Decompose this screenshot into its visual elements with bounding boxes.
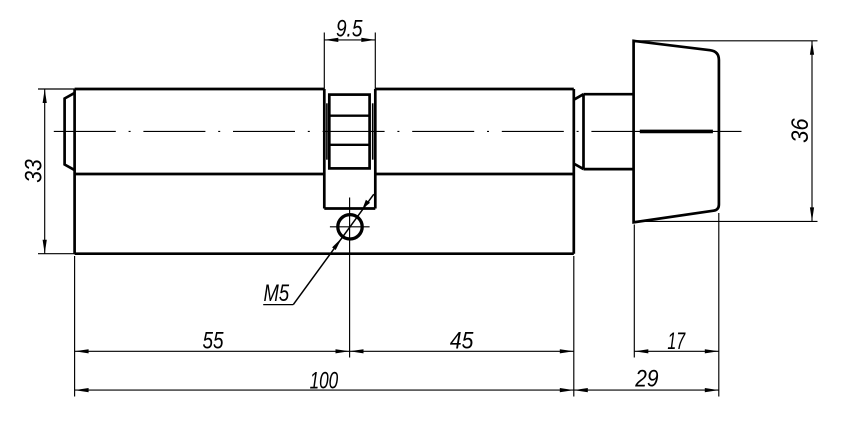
dim 55 line [75,350,350,352]
cylinder body top edge [75,88,574,91]
dim 29 line [574,389,719,391]
cam cutout right wall [374,89,377,209]
cam cutout left wall [323,89,326,209]
dim 36 extension lines [634,41,818,222]
svg-text:55: 55 [203,327,225,354]
dim 45 arrow right [560,349,574,353]
cylinder barrel bottom edge [75,173,574,176]
svg-text:33: 33 [20,159,47,183]
M5 leader arrowhead at hole [332,238,342,250]
svg-text:100: 100 [310,367,339,394]
dim 36 line [811,41,813,222]
dim 33 arrow bottom [43,240,47,254]
dim 9.5 extension lines [324,33,375,90]
lower extension lines [75,213,719,397]
dim 17 line [634,350,719,352]
dim 100 line [75,389,574,391]
thumbturn neck bottom edge [584,168,634,171]
M5 hole horizontal centerline [330,226,370,228]
dim 100 arrow right [560,388,574,392]
cam cutout bottom edge [324,207,375,210]
cam stack divider lower [329,144,369,146]
dim 9.5 arrow left [324,38,338,42]
dim 29 arrow right [705,388,719,392]
M5 label underline [263,304,293,306]
svg-text:45: 45 [450,328,474,355]
cam stack body [329,95,369,169]
svg-text:36: 36 [787,118,814,143]
M5 leader arrowhead at cutout bottom [362,200,370,209]
M5 hole vertical centerline [349,198,351,358]
dim 29 arrow left [574,388,588,392]
thumbturn knob outline [634,41,719,222]
dim 33 arrow top [43,89,47,103]
dim 36 arrow bottom [810,207,814,221]
thumbturn neck top edge [584,93,634,96]
cylinder body left edge [73,89,76,254]
cylinder flange bottom edge [75,252,574,255]
dim 36 arrow top [810,41,814,55]
M5 tapped hole [338,215,362,239]
dim 33 extension lines [38,89,75,254]
circlip groove right line [372,103,374,159]
dim 9.5 arrow right [361,38,375,42]
svg-text:29: 29 [634,366,658,393]
dim 33 line [44,89,46,254]
neck collar edge [575,94,584,169]
front face chamfered cap [65,93,75,170]
dim 55 arrow right [336,349,350,353]
cylinder body right edge [572,89,575,254]
knob grip line [640,130,713,134]
cam stack divider upper [329,114,369,116]
svg-text:17: 17 [667,328,686,355]
circlip groove left line [326,103,328,159]
svg-text:9.5: 9.5 [336,15,363,42]
dim 9.5 line [324,39,375,41]
svg-text:M5: M5 [264,280,290,307]
dim 17 arrow left [634,349,648,353]
dim 55 arrow left [75,349,89,353]
dim 45 arrow left [350,349,364,353]
centerline axis [54,130,742,132]
M5 leader line [293,194,374,304]
dim 45 line [350,350,574,352]
dim 100 arrow left [75,388,89,392]
dim 17 arrow right [705,349,719,353]
